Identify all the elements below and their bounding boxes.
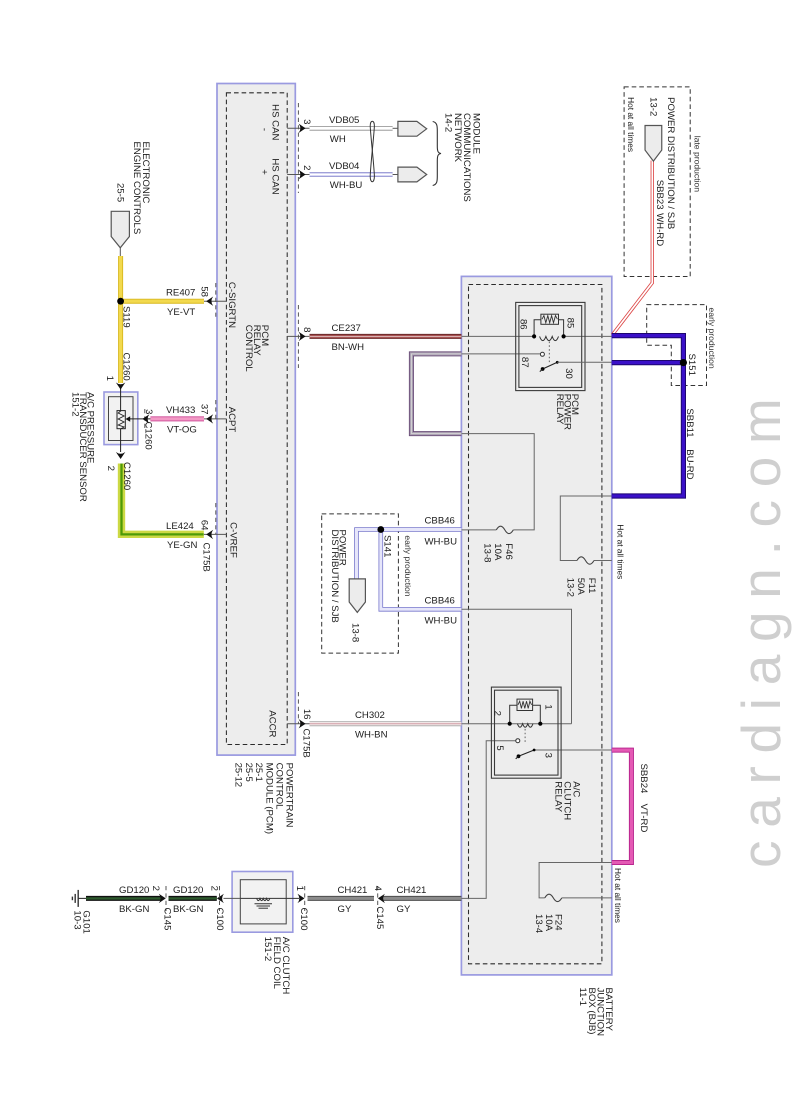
A/C clutch relay coil stubs: [510, 705, 517, 723]
svg-text:BK-GN: BK-GN: [119, 904, 149, 915]
svg-text:WH-BU: WH-BU: [425, 615, 458, 626]
connector dash at pin 37: [215, 400, 217, 419]
svg-text:YE-VT: YE-VT: [167, 307, 195, 318]
svg-text:3: 3: [143, 409, 154, 414]
svg-text:late production: late production: [692, 136, 702, 193]
svg-text:8: 8: [301, 327, 312, 332]
PCM power relay pin30 line: [557, 361, 612, 363]
svg-text:2: 2: [150, 886, 161, 891]
A/C clutch relay pin 5 contact: [516, 739, 520, 743]
svg-text:ACPT: ACPT: [226, 407, 237, 433]
arrow pin 37: [206, 414, 213, 423]
svg-text:1: 1: [104, 376, 115, 381]
svg-text:64: 64: [199, 520, 210, 531]
BJB F46 loop: [461, 434, 534, 530]
svg-text:RELAY: RELAY: [553, 781, 564, 812]
svg-text:CH421: CH421: [338, 885, 368, 896]
PCM power relay coil box: [541, 314, 559, 324]
svg-text:VDB04: VDB04: [329, 161, 360, 172]
wire YE from EEC connector through S119 to sensor: [118, 256, 123, 383]
svg-text:151-2: 151-2: [70, 392, 81, 417]
connector dash C175B at pins 3-2: [297, 103, 299, 193]
svg-text:GY: GY: [397, 904, 411, 915]
wire LE424 YE-GN: [122, 464, 204, 535]
svg-text:CONTROL: CONTROL: [243, 325, 254, 373]
wire SBB11 BU-RD loop: [612, 336, 684, 496]
svg-text:58: 58: [199, 286, 210, 297]
svg-text:POWER DISTRIBUTION / SJB: POWER DISTRIBUTION / SJB: [665, 97, 676, 229]
early production outline at S151: [647, 305, 707, 386]
svg-text:CH421: CH421: [397, 885, 427, 896]
svg-text:2: 2: [491, 711, 502, 716]
svg-text:2: 2: [209, 886, 220, 891]
BJB battery junction box: [461, 276, 611, 975]
BJB A/C relay coil line: [461, 723, 571, 725]
svg-text:-: -: [258, 128, 269, 131]
svg-text:151-2: 151-2: [262, 937, 273, 962]
connector dash C175B at pin 16: [297, 692, 299, 724]
svg-text:C145: C145: [374, 906, 385, 929]
pin 3 lead: [287, 127, 309, 129]
svg-text:2: 2: [301, 165, 312, 170]
svg-text:WH-BU: WH-BU: [425, 537, 458, 548]
svg-text:C100: C100: [214, 908, 225, 931]
svg-text:DISTRIBUTION / SJB: DISTRIBUTION / SJB: [329, 530, 340, 623]
svg-text:WH-BU: WH-BU: [330, 180, 363, 191]
svg-text:+: +: [258, 169, 269, 175]
wire CH421 GY left: [308, 896, 375, 901]
arrow sensor pin 2: [116, 452, 125, 459]
svg-text:C1260: C1260: [121, 462, 132, 490]
A/C clutch field coil box: [232, 872, 293, 933]
brace module communications network: [433, 122, 441, 186]
svg-text:C1260: C1260: [143, 422, 154, 450]
svg-text:C100: C100: [298, 908, 309, 931]
pin 16 lead: [287, 723, 309, 725]
BJB A/C relay pin3 line: [534, 749, 612, 751]
svg-text:CBB46: CBB46: [425, 515, 455, 526]
svg-text:13-8: 13-8: [481, 543, 492, 562]
BJB A/C relay pin5 to CH421: [461, 741, 516, 899]
arrow pin 8: [299, 332, 306, 341]
svg-text:CBB46: CBB46: [425, 595, 455, 606]
svg-text:C-VREF: C-VREF: [227, 522, 238, 558]
svg-text:50A: 50A: [575, 578, 586, 596]
svg-text:WH: WH: [330, 134, 346, 145]
svg-text:87: 87: [519, 357, 530, 368]
svg-text:16: 16: [301, 709, 312, 720]
svg-text:BN-WH: BN-WH: [332, 342, 365, 353]
sensor internal lead: [120, 388, 122, 411]
twisted pair symbol: [370, 126, 374, 176]
svg-text:Hot at all times: Hot at all times: [626, 97, 636, 152]
wire VDB04 WH-BU: [310, 172, 393, 177]
connector dash C100-R: [304, 886, 306, 911]
arrow pin 2: [299, 170, 306, 179]
field coil line: [224, 897, 241, 899]
svg-text:S119: S119: [121, 306, 132, 328]
connector dash at pin 58: [215, 283, 217, 318]
svg-text:25-12: 25-12: [233, 763, 244, 788]
svg-text:3: 3: [301, 119, 312, 124]
svg-text:SBB11: SBB11: [684, 408, 695, 437]
wire VDB05 WH: [310, 126, 393, 131]
arrow sensor pin 3: [142, 414, 149, 423]
svg-text:VT-RD: VT-RD: [638, 804, 649, 833]
PCM power relay coil stubs: [534, 320, 541, 337]
PCM power relay junction dots: [532, 334, 536, 338]
svg-text:Hot at all times: Hot at all times: [613, 868, 623, 923]
arrow pin 64: [206, 530, 213, 539]
svg-text:S141: S141: [381, 535, 392, 557]
svg-text:HS CAN: HS CAN: [269, 104, 280, 140]
svg-text:13-2: 13-2: [648, 97, 659, 116]
arrow C100 right: [298, 894, 305, 903]
svg-text:1: 1: [543, 704, 554, 709]
svg-text:C145: C145: [161, 908, 172, 931]
BJB line pin 87: [461, 353, 540, 355]
BJB line to relay coil 86: [461, 335, 534, 337]
svg-text:11-1: 11-1: [577, 988, 588, 1007]
A/C clutch relay coil loops: [517, 724, 533, 728]
pin 58 lead: [204, 300, 226, 302]
A/C pressure transducer sensor box: [104, 392, 138, 445]
svg-text:4: 4: [372, 886, 383, 892]
fuse F24 element: [545, 894, 562, 901]
svg-text:5: 5: [494, 745, 505, 750]
off-page connector VDB04: [398, 167, 427, 182]
wire SBB23 WH-RD: [612, 161, 652, 335]
svg-text:86: 86: [518, 319, 529, 330]
svg-text:13-8: 13-8: [349, 623, 360, 642]
PCM module box: [217, 84, 295, 756]
connector dash C145-1: [165, 886, 167, 911]
BJB F11 loop: [560, 496, 612, 561]
pin 37 lead: [204, 418, 226, 420]
wire CBB46 WH-BU upper: [357, 530, 462, 579]
arrow sensor pin 1: [116, 383, 125, 390]
BJB F24 loop: [539, 863, 612, 898]
svg-text:WH-BN: WH-BN: [355, 729, 388, 740]
wire CBB46 WH-BU lower: [381, 530, 462, 610]
svg-text:13-2: 13-2: [564, 578, 575, 597]
wire SBB11 BU-RD branch: [612, 360, 684, 365]
off-page connector power distribution 13-8: [349, 579, 365, 613]
off-page connector power distribution 13-2: [645, 126, 662, 162]
svg-text:SBB23: SBB23: [654, 180, 665, 210]
svg-text:BU-RD: BU-RD: [684, 449, 695, 479]
svg-text:early production: early production: [403, 535, 413, 596]
A/C clutch relay armature: [519, 750, 535, 756]
svg-text:85: 85: [564, 318, 575, 329]
wire CE237 BN-WH: [310, 334, 462, 339]
svg-text:2: 2: [105, 466, 116, 471]
PCM power relay armature: [543, 362, 558, 369]
wire CH302 WH-BN: [310, 721, 462, 726]
svg-text:3: 3: [543, 753, 554, 758]
arrow C100 left: [217, 894, 224, 903]
splice S151: [680, 359, 687, 366]
svg-text:VH433: VH433: [166, 405, 195, 416]
svg-text:LE424: LE424: [166, 521, 194, 532]
svg-text:ACCR: ACCR: [267, 710, 278, 737]
power distribution SJB box (S141): [322, 514, 399, 653]
svg-text:VT-OG: VT-OG: [167, 424, 197, 435]
PCM power relay box: [516, 302, 585, 390]
off-page connector VDB05: [398, 121, 427, 136]
BJB CBB46 feed to A/C relay pin1: [461, 609, 571, 723]
svg-text:C175B: C175B: [200, 543, 211, 572]
pin 2 lead: [287, 174, 309, 176]
PCM power relay pin 87 contact: [540, 352, 544, 356]
svg-text:RELAY: RELAY: [554, 394, 565, 425]
module comms lead 1: [393, 127, 398, 129]
arrow pin 58: [206, 297, 213, 306]
arrow pin 16: [299, 719, 306, 728]
svg-text:10A: 10A: [492, 543, 503, 561]
svg-text:cardiagn.com: cardiagn.com: [730, 385, 792, 868]
wire GD120 BK-GN left: [86, 896, 162, 901]
svg-text:GD120: GD120: [173, 885, 203, 896]
PCM power relay coil loops: [540, 336, 559, 340]
svg-text:25-5: 25-5: [115, 183, 126, 202]
svg-text:37: 37: [199, 404, 210, 415]
svg-text:RE407: RE407: [166, 288, 195, 299]
svg-text:SBB24: SBB24: [638, 764, 649, 795]
fuse F46 element: [496, 526, 513, 533]
A/C clutch relay junction dots: [508, 722, 512, 726]
svg-text:C1260: C1260: [121, 353, 132, 381]
svg-text:C-SIGRTN: C-SIGRTN: [226, 282, 237, 328]
svg-text:VDB05: VDB05: [329, 115, 359, 126]
arrow C145 right: [378, 894, 385, 903]
connector dash at pin 64: [215, 503, 217, 534]
wire CH421 GY right: [382, 896, 462, 901]
ground G101: [78, 897, 86, 899]
svg-text:GD120: GD120: [119, 885, 149, 896]
svg-text:CH302: CH302: [355, 710, 385, 721]
svg-text:WH-RD: WH-RD: [654, 213, 665, 246]
splice S141: [377, 526, 384, 533]
svg-text:13-4: 13-4: [533, 914, 544, 934]
module comms lead 2: [393, 174, 398, 176]
svg-text:HS CAN: HS CAN: [269, 158, 280, 194]
svg-text:BK-GN: BK-GN: [173, 904, 203, 915]
svg-text:F11: F11: [586, 578, 597, 594]
connector dash sensor pin3: [144, 409, 146, 428]
svg-text:Hot at all times: Hot at all times: [615, 524, 625, 579]
off-page connector electronic engine controls: [111, 211, 129, 248]
svg-text:1: 1: [294, 886, 305, 891]
svg-text:YE-GN: YE-GN: [167, 540, 197, 551]
PCM power relay switch dotted link: [548, 342, 550, 363]
svg-text:C175B: C175B: [301, 729, 312, 758]
svg-text:early production: early production: [707, 308, 717, 369]
svg-text:CE237: CE237: [332, 323, 361, 334]
A/C clutch relay box: [491, 687, 561, 778]
svg-text:GY: GY: [338, 904, 352, 915]
svg-text:F46: F46: [503, 543, 514, 560]
svg-text:14-2: 14-2: [443, 113, 454, 132]
wire RE407 YE-VT: [121, 299, 204, 304]
svg-text:ENGINE CONTROLS: ENGINE CONTROLS: [131, 142, 142, 235]
power distribution SJB box (late production): [624, 87, 690, 277]
svg-text:30: 30: [563, 368, 574, 379]
arrow pin 3: [299, 124, 306, 133]
wire VH433 VT-OG: [150, 416, 204, 421]
transducer symbol: [117, 411, 125, 429]
field coil loops: [257, 898, 270, 900]
connector dash C145-2: [377, 886, 379, 911]
pin 64 lead: [204, 533, 226, 535]
connector dash C100-L: [219, 886, 221, 911]
wire GD120 BK-GN right: [169, 896, 217, 901]
svg-text:S151: S151: [686, 354, 697, 376]
BJB line relay 85 to right edge: [564, 335, 612, 337]
pin 8 lead: [287, 335, 309, 337]
svg-text:10-3: 10-3: [72, 910, 83, 929]
arrow C145 left: [159, 894, 166, 903]
A/C clutch relay switch dotted link: [524, 729, 526, 744]
wire SBB24 VT-RD: [612, 750, 632, 862]
wire CE612 GY-VT: [411, 354, 461, 434]
fuse F11 element: [577, 557, 594, 564]
connector dash C175B at pin 8: [297, 305, 299, 368]
splice S119: [117, 298, 124, 305]
A/C clutch relay coil box: [517, 699, 533, 710]
field coil core bars: [255, 903, 273, 905]
